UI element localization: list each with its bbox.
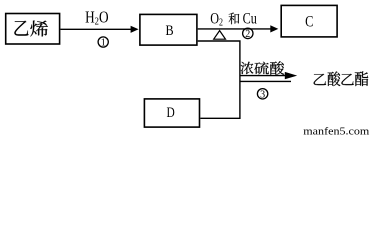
- svg-text:3: 3: [260, 89, 265, 100]
- svg-text:C: C: [305, 13, 313, 31]
- svg-text:B: B: [166, 22, 174, 39]
- svg-text:1: 1: [101, 38, 106, 49]
- svg-text:manfen5.com: manfen5.com: [303, 126, 369, 136]
- svg-text:D: D: [166, 104, 174, 121]
- svg-text:2: 2: [245, 29, 250, 40]
- svg-text:Cu: Cu: [243, 10, 257, 28]
